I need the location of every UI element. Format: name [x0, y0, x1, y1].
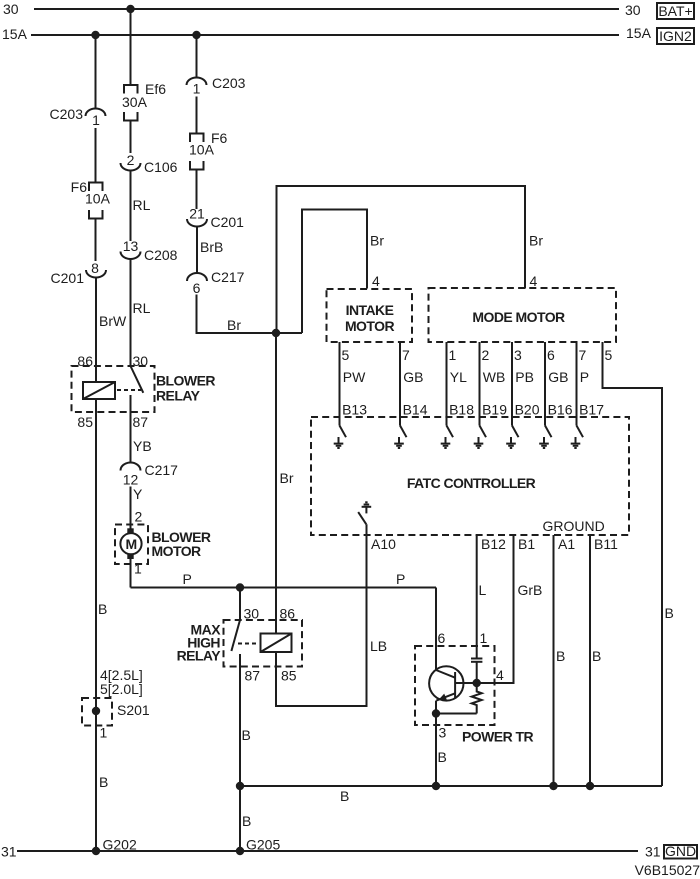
bus 30	[34, 8, 619, 10]
svg-text:LB: LB	[370, 638, 387, 654]
connector C203 pin 1 (col3)	[187, 75, 246, 97]
svg-text:BrB: BrB	[200, 239, 223, 255]
svg-text:10A: 10A	[189, 142, 215, 158]
max high relay switch	[231, 620, 240, 667]
svg-text:MOTOR: MOTOR	[152, 543, 202, 559]
max high relay actuation dashed link	[238, 643, 259, 645]
svg-text:B: B	[340, 788, 349, 804]
fuse F6 10A col1	[71, 179, 111, 219]
wire motor pin 6 to FATC B16, GB	[545, 342, 573, 426]
wire col3 C203 to F6	[196, 97, 198, 134]
svg-text:BLOWER: BLOWER	[156, 373, 215, 389]
svg-text:B: B	[242, 727, 251, 743]
connector C201 pin 21	[187, 206, 244, 231]
FATC internal switch and ground for B18	[441, 426, 453, 449]
svg-text:BrW: BrW	[99, 313, 127, 329]
svg-text:5: 5	[342, 347, 350, 363]
connector C208 pin 13	[121, 238, 178, 263]
svg-text:4: 4	[530, 273, 538, 289]
wire motor pin 2 to FATC B19, WB	[480, 342, 508, 426]
svg-text:B20: B20	[515, 402, 540, 418]
svg-text:GROUND: GROUND	[543, 518, 605, 534]
svg-text:Ef6: Ef6	[145, 81, 166, 97]
svg-text:30: 30	[625, 2, 641, 18]
svg-text:5[2.0L]: 5[2.0L]	[100, 681, 143, 697]
wire motor pin 7 to FATC B14, GB	[400, 342, 428, 426]
wire FATC B11 to B bus, B	[590, 535, 618, 786]
svg-text:B14: B14	[403, 402, 428, 418]
svg-text:1: 1	[92, 112, 100, 128]
svg-text:86: 86	[280, 606, 296, 622]
svg-text:INTAKE: INTAKE	[346, 302, 394, 318]
label 31 left	[1, 844, 17, 860]
svg-text:85: 85	[281, 668, 297, 684]
connector C217 pin 6	[187, 269, 245, 296]
svg-text:M: M	[125, 536, 136, 552]
svg-text:15A: 15A	[2, 26, 28, 42]
wire FATC B12 to power TR pin 1, L	[477, 535, 506, 658]
wire motor pin 1 to FATC B18, YL	[447, 342, 475, 426]
wire riser to mode motor pin 4, Br	[277, 186, 544, 333]
svg-text:B: B	[242, 813, 251, 829]
svg-text:B13: B13	[342, 402, 367, 418]
wire emitter to resistor bottom	[436, 713, 477, 715]
splice S201	[82, 698, 150, 741]
svg-text:B17: B17	[579, 402, 604, 418]
node junction 15A/col3	[192, 31, 200, 39]
svg-text:6: 6	[547, 347, 555, 363]
FATC internal switch and ground for B14	[394, 426, 406, 449]
FATC internal switch and ground for B19	[474, 426, 486, 449]
svg-text:21: 21	[189, 206, 205, 222]
svg-text:1: 1	[100, 725, 108, 741]
wire col2 bus30 to Ef6	[130, 9, 132, 85]
svg-text:C201: C201	[211, 214, 245, 230]
wire P line	[131, 571, 437, 588]
connector C106 pin 2	[121, 152, 178, 175]
svg-text:B12: B12	[481, 536, 506, 552]
mode motor box	[429, 288, 617, 342]
svg-text:30: 30	[244, 606, 260, 622]
svg-text:WB: WB	[483, 369, 506, 385]
svg-text:7: 7	[402, 347, 410, 363]
node G205 junction	[236, 847, 244, 855]
wire P to transistor collector	[435, 588, 437, 671]
svg-text:C217: C217	[145, 462, 179, 478]
label 31 right	[645, 844, 661, 860]
node B bus junctions	[236, 782, 244, 790]
svg-text:P: P	[580, 369, 589, 385]
wire mode motor pin 5 to right edge down	[603, 342, 674, 786]
wire riser to intake motor pin 4, Br	[302, 210, 384, 334]
svg-text:Y: Y	[133, 486, 143, 502]
svg-text:3: 3	[514, 347, 522, 363]
node base junction	[473, 679, 481, 687]
svg-text:1: 1	[480, 630, 488, 646]
bus 15A	[31, 34, 619, 36]
svg-text:IGN2: IGN2	[659, 28, 692, 44]
wire col2 Ef6 to C106	[130, 121, 132, 154]
svg-text:C208: C208	[144, 247, 178, 263]
svg-text:15A: 15A	[626, 25, 652, 41]
svg-text:B: B	[438, 749, 447, 765]
resistor in power TR	[472, 683, 482, 714]
blower relay switch	[131, 366, 144, 412]
svg-text:B: B	[99, 774, 108, 790]
FATC internal switch and ground for B17	[571, 426, 583, 449]
svg-text:30A: 30A	[122, 94, 148, 110]
svg-text:Br: Br	[370, 233, 384, 249]
connector C203 pin 1	[50, 106, 106, 128]
svg-text:30: 30	[3, 1, 19, 17]
svg-text:B18: B18	[449, 402, 474, 418]
svg-text:87: 87	[245, 668, 261, 684]
blower relay box	[72, 366, 216, 412]
wire base node to pin 4 and FATC B1, GrB	[477, 535, 543, 683]
wire B bottom bus	[240, 786, 662, 804]
wire S201 to G202, B	[96, 726, 137, 853]
FATC controller box	[311, 417, 629, 535]
svg-text:GB: GB	[548, 369, 568, 385]
svg-text:L: L	[479, 582, 487, 598]
wire FATC A1 to B bus, B	[554, 535, 576, 786]
svg-text:YB: YB	[133, 438, 152, 454]
svg-text:S201: S201	[117, 702, 150, 718]
blower relay pin labels	[77, 353, 148, 430]
blower motor M	[115, 525, 211, 565]
terminal box BAT+	[657, 3, 694, 19]
wire G205 column to ground bus, B	[240, 786, 280, 853]
svg-text:MOTOR: MOTOR	[345, 318, 395, 334]
svg-text:RELAY: RELAY	[177, 648, 222, 664]
terminal box GND	[664, 843, 697, 859]
wire motor pin 1 down to P line	[131, 559, 143, 588]
svg-text:6: 6	[438, 630, 446, 646]
svg-text:BAT+: BAT+	[658, 3, 692, 19]
wire power TR pin 3 to B bus, B	[436, 714, 447, 787]
label 15A right	[626, 25, 652, 41]
svg-text:4: 4	[372, 273, 380, 289]
svg-text:5: 5	[605, 347, 613, 363]
wire motor pin 3 to FATC B20, PB	[512, 342, 540, 426]
svg-text:2: 2	[135, 509, 143, 525]
power TR box	[415, 646, 533, 745]
wire relay 85 to S201, B	[96, 399, 107, 726]
svg-text:Br: Br	[529, 233, 543, 249]
connector C217 pin 12	[121, 462, 179, 488]
intake motor box	[327, 289, 413, 342]
label 30 left	[3, 1, 19, 17]
svg-text:RL: RL	[133, 300, 151, 316]
max high relay box	[177, 620, 302, 667]
wire col2 C208 to blower relay pin 30, RL	[131, 259, 151, 366]
svg-text:86: 86	[77, 353, 93, 369]
max high relay coil	[261, 634, 292, 653]
svg-text:4: 4	[496, 667, 504, 683]
node emitter junction	[432, 709, 440, 717]
svg-text:Br: Br	[227, 317, 241, 333]
svg-text:31: 31	[645, 844, 661, 860]
blower relay actuation dashed link	[117, 389, 141, 391]
svg-text:31: 31	[1, 844, 17, 860]
svg-text:V6B15027: V6B15027	[635, 862, 700, 878]
node Br junction	[272, 329, 280, 337]
labels S201 variants	[100, 667, 143, 697]
svg-text:85: 85	[77, 414, 93, 430]
capacitor in power TR	[471, 659, 482, 684]
svg-text:B: B	[556, 648, 565, 664]
wire col1 15A to C203	[95, 35, 97, 109]
wire motor pin 7 to FATC B17, P	[577, 342, 605, 426]
FATC internal switch and ground for B13	[334, 426, 346, 449]
svg-text:P: P	[183, 571, 192, 587]
FATC internal switch and ground for B16	[539, 426, 551, 449]
power TR pin labels	[438, 630, 447, 741]
svg-text:RELAY: RELAY	[156, 388, 201, 404]
FATC internal switch and ground for B20	[506, 426, 518, 449]
svg-text:C217: C217	[211, 269, 245, 285]
wire FATC A10 to max-high relay pin 85, LB	[276, 524, 396, 706]
svg-text:87: 87	[133, 414, 149, 430]
svg-text:PW: PW	[343, 369, 366, 385]
blower relay coil	[83, 382, 115, 399]
svg-text:B: B	[665, 605, 674, 621]
svg-text:FATC CONTROLLER: FATC CONTROLLER	[407, 475, 536, 491]
wire motor pin 5 to FATC B13, PW	[340, 342, 368, 426]
svg-text:YL: YL	[450, 369, 467, 385]
svg-text:A1: A1	[558, 536, 575, 552]
svg-text:1: 1	[449, 347, 457, 363]
wire C217 to blower motor, Y	[131, 486, 144, 529]
svg-text:RL: RL	[133, 197, 151, 213]
terminal box IGN2	[657, 28, 694, 44]
svg-text:C203: C203	[212, 75, 246, 91]
svg-text:10A: 10A	[85, 191, 111, 207]
wire col3 F6 to C201	[196, 170, 198, 210]
wire col2 C106 to C208, RL	[131, 171, 151, 242]
svg-text:Br: Br	[280, 470, 294, 486]
node junction 15A/col1	[91, 31, 99, 39]
svg-text:A10: A10	[371, 536, 396, 552]
svg-text:B1: B1	[518, 536, 535, 552]
wire P junction to max-high relay pin 30	[239, 588, 241, 621]
node G202 junction	[92, 847, 100, 855]
label diagram number V6B15027	[635, 862, 700, 878]
svg-text:B16: B16	[548, 402, 573, 418]
svg-text:1: 1	[193, 81, 201, 97]
svg-text:2: 2	[482, 347, 490, 363]
node P junction	[236, 583, 244, 591]
label 15A left	[2, 26, 28, 42]
fuse Ef6 30A	[122, 81, 166, 121]
svg-text:B: B	[98, 601, 107, 617]
svg-text:PB: PB	[515, 369, 534, 385]
svg-text:1: 1	[134, 561, 142, 577]
svg-text:C201: C201	[51, 270, 85, 286]
svg-text:GND: GND	[665, 843, 696, 859]
svg-text:7: 7	[579, 347, 587, 363]
wire col3 C217 down and right to junction, Br	[197, 295, 303, 334]
wire col3 C201 to C217, BrB	[197, 227, 223, 274]
svg-text:B19: B19	[482, 402, 507, 418]
svg-text:GrB: GrB	[518, 582, 543, 598]
svg-text:8: 8	[91, 260, 99, 276]
svg-text:C203: C203	[50, 106, 84, 122]
wire relay 87 to C217 pin12, YB	[131, 412, 152, 463]
wire col3 15A to C203	[196, 35, 198, 78]
svg-text:GB: GB	[403, 369, 423, 385]
FATC A10 internal ground-up switch	[358, 502, 371, 524]
svg-text:POWER TR: POWER TR	[462, 729, 533, 745]
wire relay 87 down to B bus, B	[240, 667, 251, 787]
transistor Q1 power TR	[429, 666, 477, 713]
bus 31 ground	[17, 850, 638, 852]
label 30 right	[625, 2, 641, 18]
svg-text:MODE MOTOR: MODE MOTOR	[472, 309, 565, 325]
wire Br junction down to max-high relay pin 86	[276, 333, 294, 634]
max high relay pin labels	[244, 606, 297, 684]
svg-text:B11: B11	[594, 536, 618, 552]
svg-text:B: B	[592, 648, 601, 664]
svg-text:P: P	[396, 571, 405, 587]
svg-text:6: 6	[193, 280, 201, 296]
fuse F6 10A col3	[189, 130, 228, 170]
node junction bus30/RL	[126, 5, 134, 13]
wire col1 C203 to F6	[95, 128, 97, 182]
svg-text:3: 3	[439, 725, 447, 741]
svg-text:30: 30	[133, 353, 149, 369]
wire col1 F6 to C201	[95, 219, 97, 262]
wire col1 C201 to blower relay pin 86, BrW	[96, 278, 127, 383]
connector C201 pin 8	[51, 260, 106, 286]
svg-text:C106: C106	[144, 159, 178, 175]
svg-text:13: 13	[123, 238, 139, 254]
svg-text:2: 2	[127, 152, 135, 168]
